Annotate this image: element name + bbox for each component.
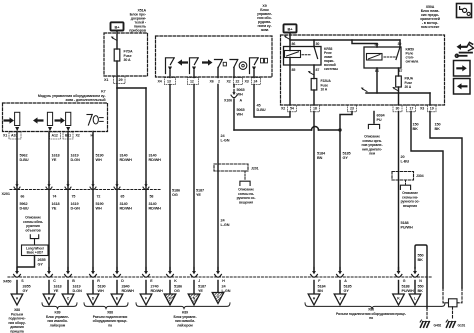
svg-text:2: 2 (218, 80, 220, 84)
battery feed B+ (X51A) (111, 22, 124, 30)
stub 6034 PU (374, 112, 385, 123)
X9 left-turn arrow (178, 59, 189, 65)
svg-text:6034: 6034 (377, 114, 386, 118)
svg-text:B+: B+ (115, 25, 121, 30)
wire stubs to terminals (17, 281, 415, 295)
svg-text:19: 19 (430, 107, 434, 111)
in-line connector X201 (2, 182, 161, 199)
option box Long Wheel Base (22, 245, 49, 256)
K7 switch with lamp (87, 115, 103, 126)
svg-text:K: K (174, 279, 177, 283)
svg-text:24: 24 (222, 285, 227, 289)
fuse F22UA (311, 79, 331, 92)
svg-text:5065: 5065 (237, 108, 245, 112)
wire 3140 RD/WH from fuse (116, 61, 118, 270)
fuse block X50A box (281, 35, 445, 105)
wire 5065 WH upper (234, 85, 245, 97)
terminal F (140, 294, 152, 305)
svg-text:X2: X2 (76, 134, 80, 138)
svg-text:RD/WH: RD/WH (120, 158, 133, 162)
svg-text:G101: G101 (458, 323, 466, 327)
svg-text:RD/WH: RD/WH (122, 289, 135, 293)
svg-text:87: 87 (316, 68, 320, 72)
wire F9UA to pin 30 (398, 87, 400, 105)
svg-text:X106: X106 (224, 99, 232, 103)
svg-text:R: R (97, 279, 100, 283)
group label K89 (left) (46, 311, 69, 328)
svg-text:74: 74 (53, 195, 57, 199)
svg-text:5190: 5190 (96, 154, 104, 158)
svg-text:па: па (108, 323, 112, 327)
svg-text:D: D (121, 279, 124, 283)
svg-text:18: 18 (313, 107, 317, 111)
power tap half-arrow (X51A) (111, 37, 117, 41)
branch bracket (object detection) (30, 235, 38, 245)
label 1618 YE below (54, 285, 62, 293)
svg-text:J: J (339, 296, 341, 300)
svg-text:G: G (217, 295, 220, 299)
svg-text:150: 150 (435, 123, 441, 127)
svg-text:13: 13 (167, 80, 171, 84)
label 5187 YE below (198, 285, 206, 293)
svg-text:1619: 1619 (71, 202, 79, 206)
module X9 box (156, 36, 273, 77)
X50A pins X2:54 18 23 30 17 X3:19 (281, 105, 436, 112)
wire 5187 YE (194, 85, 204, 271)
svg-text:X201: X201 (2, 192, 10, 196)
power rail 30 (290, 40, 400, 47)
svg-text:вещения: вещения (403, 204, 417, 208)
brace K89 left (42, 303, 77, 310)
svg-text:F: F (318, 279, 321, 283)
svg-text:5184: 5184 (318, 285, 327, 289)
wire 550 BK loop to pin N (415, 245, 427, 308)
X9 pins X4:13 12 X6:2 X2:22 X3:24 (158, 78, 261, 85)
svg-text:системы: системы (324, 67, 338, 71)
group label X88 (right) (336, 308, 406, 321)
svg-text:12: 12 (190, 80, 194, 84)
wire 20 L-BU (399, 112, 410, 271)
relay KR59 label (406, 48, 419, 64)
battery feed B+ (X50A) (284, 24, 297, 32)
svg-text:D-GN: D-GN (71, 158, 81, 162)
svg-text:BN: BN (318, 289, 324, 293)
svg-text:5185: 5185 (343, 152, 351, 156)
terminal D (87, 294, 99, 305)
svg-text:75: 75 (72, 195, 76, 199)
fuse F7DA (114, 49, 133, 62)
X9 right-turn arrow (202, 59, 213, 65)
icon: left turn (454, 79, 471, 95)
terminal H (308, 294, 320, 305)
branch stub J201 (240, 171, 250, 185)
svg-text:PU/WH: PU/WH (401, 225, 413, 229)
terminal M (164, 294, 176, 305)
power tap half-arrow (X50A) (284, 36, 290, 40)
wire KR59 86 rail (366, 68, 430, 105)
svg-text:J: J (198, 279, 200, 283)
svg-text:BN: BN (317, 156, 323, 160)
svg-text:5186: 5186 (172, 189, 180, 193)
svg-text:X3: X3 (420, 107, 424, 111)
svg-text:WH: WH (237, 112, 243, 116)
label 5190 WH below (98, 285, 106, 293)
wire 5185 GY (340, 112, 352, 271)
terminal N (188, 294, 200, 305)
svg-text:WH: WH (96, 158, 102, 162)
svg-text:5065: 5065 (237, 88, 245, 92)
svg-text:10 A: 10 A (321, 88, 328, 92)
svg-text:3140: 3140 (149, 202, 157, 206)
terminal B (43, 294, 55, 305)
icon: right turn (454, 61, 471, 77)
svg-text:PU/WH: PU/WH (402, 289, 414, 293)
svg-text:BK: BK (418, 258, 424, 262)
svg-text:5190: 5190 (96, 202, 104, 206)
svg-text:лем: лем (369, 152, 376, 156)
svg-text:X4: X4 (158, 80, 162, 84)
K7 pins X1:A10 A12 B11:X2 H (3, 132, 94, 139)
svg-text:X450: X450 (3, 280, 11, 284)
wire KR59 87 to fuse F9UA (398, 68, 400, 76)
svg-text:G: G (403, 279, 406, 283)
X9 switch with indicator pin 22 (230, 60, 247, 78)
svg-text:RD/WH: RD/WH (120, 206, 133, 210)
relay KR59 coil (367, 54, 396, 61)
description: exterior lighting schematic (J304) (401, 191, 420, 208)
svg-text:1618: 1618 (52, 202, 60, 206)
svg-text:3140: 3140 (120, 154, 128, 158)
svg-text:550: 550 (418, 254, 424, 258)
svg-text:66: 66 (21, 195, 25, 199)
terminal L (409, 294, 421, 305)
K7 driver output 2 (33, 112, 53, 131)
X9 low-side driver pin 12 (190, 58, 199, 78)
terminal A (11, 294, 23, 305)
svg-text:X3: X3 (245, 80, 249, 84)
wire 3140 RD/WH branch (117, 88, 146, 270)
branch stub J304 (400, 180, 410, 189)
svg-text:5188: 5188 (402, 285, 410, 289)
svg-text:550: 550 (418, 285, 424, 289)
svg-text:G402: G402 (434, 323, 442, 327)
svg-text:30: 30 (316, 42, 320, 46)
svg-text:2840: 2840 (122, 285, 130, 289)
group label X88 (left) (8, 308, 25, 333)
svg-text:H: H (222, 279, 225, 283)
svg-text:5187: 5187 (198, 285, 206, 289)
terminal C (62, 294, 74, 305)
svg-text:L-BU: L-BU (401, 159, 410, 163)
fuse block X50A label (420, 5, 440, 29)
X9 driver pin 24 (250, 58, 268, 78)
svg-text:20: 20 (401, 155, 405, 159)
label 3140 RD/WH left (120, 154, 133, 211)
power rail 85 (352, 40, 377, 47)
label 3140 RD/WH right (149, 154, 162, 211)
svg-text:5186: 5186 (174, 285, 182, 289)
svg-text:5962: 5962 (20, 202, 28, 206)
svg-text:30 A: 30 A (124, 58, 132, 62)
svg-text:2740: 2740 (151, 285, 159, 289)
brace X88 middle (84, 303, 128, 310)
dashed link from 150BK wires (443, 288, 462, 319)
relay KR59 pins (375, 42, 403, 73)
label 5188 PU/WH below (402, 285, 414, 293)
splice J304 (392, 172, 424, 181)
terminal J (334, 294, 346, 305)
svg-text:GY: GY (344, 289, 350, 293)
wire 150 BK (pin 17) (411, 112, 443, 289)
relay KR53 box (284, 47, 322, 66)
ground G402 (420, 320, 441, 327)
svg-text:M: M (169, 296, 172, 300)
svg-text:YE: YE (198, 289, 203, 293)
svg-text:B: B (72, 279, 75, 283)
svg-text:150: 150 (413, 123, 419, 127)
svg-text:GY: GY (343, 156, 349, 160)
svg-text:24: 24 (221, 219, 226, 223)
svg-text:A12: A12 (52, 134, 58, 138)
svg-text:C: C (53, 279, 56, 283)
svg-text:E: E (150, 279, 153, 283)
svg-text:1619: 1619 (73, 285, 81, 289)
svg-text:объектов: объектов (25, 228, 40, 232)
wire 5184 BN (314, 112, 326, 271)
svg-text:54: 54 (290, 107, 294, 111)
splice box to grounds (449, 299, 458, 307)
svg-text:GY: GY (23, 289, 29, 293)
description: engine controls schematic (362, 135, 383, 156)
label 5188 PU/WH upper (401, 221, 413, 229)
label 1619 D-GN below (73, 285, 83, 293)
svg-text:D-GN: D-GN (71, 206, 81, 210)
svg-text:2655: 2655 (38, 258, 46, 262)
module K7 label (38, 90, 107, 103)
svg-text:22: 22 (236, 80, 240, 84)
label 5186 OG below (174, 285, 182, 293)
wire F22UA to pin 18 (313, 90, 315, 105)
svg-text:65: 65 (121, 195, 125, 199)
wire 5186 OG (170, 85, 180, 271)
svg-text:WH: WH (237, 92, 243, 96)
svg-text:23: 23 (350, 107, 354, 111)
svg-text:5187: 5187 (196, 189, 204, 193)
tap half-arrow (rail 86) (361, 88, 367, 92)
label 2655 GY below (23, 285, 31, 293)
svg-text:5185: 5185 (344, 285, 352, 289)
svg-text:L-GN: L-GN (221, 138, 230, 142)
svg-text:J201: J201 (251, 167, 259, 171)
group label X88 (middle) (93, 311, 128, 328)
svg-text:па: па (369, 316, 373, 320)
fuse block X51A label (129, 9, 147, 33)
svg-text:1618: 1618 (52, 154, 60, 158)
svg-text:85: 85 (292, 68, 296, 72)
relay KR53 label (324, 47, 338, 71)
svg-text:30: 30 (398, 42, 402, 46)
svg-text:D-GN: D-GN (73, 289, 83, 293)
ground G101 (446, 320, 465, 327)
in-line connector X450 line (3, 277, 432, 284)
svg-text:зова - дополнительный: зова - дополнительный (65, 98, 105, 102)
label 24 L-GN below (222, 285, 231, 293)
svg-text:5188: 5188 (401, 221, 409, 225)
svg-text:1619: 1619 (71, 154, 79, 158)
wire 5190 WH (93, 132, 104, 271)
wire 5065 WH lower (234, 99, 340, 130)
svg-text:58: 58 (150, 195, 154, 199)
svg-text:YE: YE (52, 206, 57, 210)
svg-text:X1: X1 (104, 78, 108, 82)
svg-text:B+: B+ (288, 27, 294, 32)
svg-text:OG: OG (174, 289, 180, 293)
svg-text:GY: GY (38, 262, 44, 266)
description: exterior lighting schematic (J201) (237, 188, 256, 205)
svg-text:S: S (21, 279, 24, 283)
label 550 BK below (418, 285, 424, 293)
svg-text:WH: WH (98, 289, 104, 293)
module X9 label (257, 4, 273, 32)
svg-text:RD/WH: RD/WH (149, 206, 162, 210)
ground lead G402 dashed (426, 308, 428, 319)
connector X1 pin 29 (104, 76, 125, 83)
brace X88 right (305, 303, 445, 310)
svg-text:85: 85 (375, 43, 379, 47)
wire 2655 GY from option box (18, 256, 46, 268)
svg-text:PU: PU (377, 118, 382, 122)
icon: page reference (457, 4, 472, 18)
wire B+ to fuse F7DA (116, 31, 118, 50)
relay KR53 coil (285, 51, 311, 58)
X9 switch input pin 2 (215, 60, 227, 78)
wire KR53 87 to fuse (313, 65, 315, 79)
svg-text:YE: YE (196, 193, 201, 197)
svg-text:30: 30 (396, 107, 400, 111)
svg-text:17: 17 (410, 107, 414, 111)
svg-text:приборов: приборов (129, 29, 147, 33)
junction dot 5065/5185 (338, 128, 341, 131)
label 2740 RD/WH below (151, 285, 164, 293)
svg-text:BK: BK (413, 127, 419, 131)
svg-text:X6: X6 (210, 80, 214, 84)
svg-text:X2: X2 (227, 80, 231, 84)
svg-text:ном отсеке: ном отсеке (421, 25, 440, 29)
K7 driver output 1 (4, 112, 20, 131)
in-line connector X106 pin A (224, 90, 242, 103)
terminal G (212, 293, 224, 304)
svg-text:29: 29 (119, 78, 123, 82)
wire 1618 YE (49, 132, 60, 271)
label 5184 BN below (318, 285, 327, 293)
fuse block X51A box (104, 33, 148, 76)
splice J201 (214, 164, 259, 171)
svg-text:J304: J304 (416, 174, 424, 178)
connector X450 pin cups (14, 268, 423, 283)
svg-text:5184: 5184 (317, 152, 326, 156)
svg-text:2655: 2655 (23, 285, 31, 289)
svg-text:WH: WH (96, 206, 102, 210)
svg-text:L-GN: L-GN (221, 223, 230, 227)
svg-text:A: A (240, 99, 243, 103)
icon: turn signal arrows (455, 42, 473, 57)
description: object detection schematic (23, 216, 43, 233)
svg-text:X1: X1 (3, 134, 7, 138)
svg-text:45: 45 (257, 104, 261, 108)
fuse F9UA (396, 76, 414, 89)
branch bracket (engine controls) (368, 123, 379, 129)
svg-text:5190: 5190 (98, 285, 106, 289)
brace K89 right (136, 303, 230, 310)
svg-text:D-BU: D-BU (20, 206, 29, 210)
svg-text:RD/WH: RD/WH (151, 289, 164, 293)
svg-text:Base +UD7: Base +UD7 (27, 251, 44, 255)
wire B+ into X50A (289, 33, 291, 51)
wire 45 D-BU (254, 85, 290, 118)
svg-text:BK: BK (418, 289, 424, 293)
terminal E (111, 294, 123, 305)
label 2840 RD/WH below (122, 285, 135, 293)
wire 150 BK (pin 19) (430, 112, 462, 289)
svg-text:зова: зова (261, 28, 270, 32)
svg-text:OG: OG (172, 193, 178, 197)
svg-text:N: N (419, 279, 422, 283)
terminal K (393, 294, 405, 305)
svg-text:72: 72 (97, 195, 101, 199)
relay KR53 contact (314, 47, 318, 59)
wire 1619 D-GN (68, 132, 80, 271)
tap half-arrow (F22UA) (308, 71, 314, 75)
svg-text:YE: YE (54, 289, 59, 293)
svg-text:лайзером: лайзером (177, 323, 193, 327)
X9 low-side driver pin 13 (166, 58, 175, 78)
svg-text:24: 24 (254, 80, 258, 84)
svg-text:D-BU: D-BU (20, 158, 29, 162)
svg-text:D-BU: D-BU (257, 108, 266, 112)
svg-text:3140: 3140 (149, 154, 157, 158)
group label K89 (right) (174, 311, 197, 328)
svg-text:86: 86 (292, 42, 296, 46)
svg-text:20 A: 20 A (405, 85, 412, 89)
svg-text:YE: YE (52, 158, 57, 162)
wire 5962 D-BU (17, 132, 29, 271)
wire KR53 85 to pin 54 (289, 58, 291, 106)
svg-text:24: 24 (221, 134, 226, 138)
tap half-arrow (F9UA) (392, 87, 398, 91)
relay KR59 box (364, 47, 401, 68)
module K7 box (3, 103, 108, 132)
svg-text:RD/WH: RD/WH (149, 158, 162, 162)
relay KR59 contact (396, 47, 400, 60)
svg-text:вещения: вещения (239, 200, 253, 204)
svg-text:1618: 1618 (54, 285, 62, 289)
svg-text:5962: 5962 (20, 154, 28, 158)
svg-text:X2: X2 (281, 107, 285, 111)
label 5185 GY below (344, 285, 352, 293)
svg-text:A: A (344, 279, 347, 283)
wire 24 L-GN (218, 85, 230, 271)
svg-text:сигнала: сигнала (406, 60, 419, 64)
svg-text:3140: 3140 (120, 202, 128, 206)
K7 driver output 3 (55, 112, 71, 131)
svg-text:прицепа: прицепа (10, 330, 24, 333)
svg-text:BK: BK (435, 127, 441, 131)
relay KR53 pins (292, 42, 320, 72)
svg-text:лайзером: лайзером (50, 323, 66, 327)
